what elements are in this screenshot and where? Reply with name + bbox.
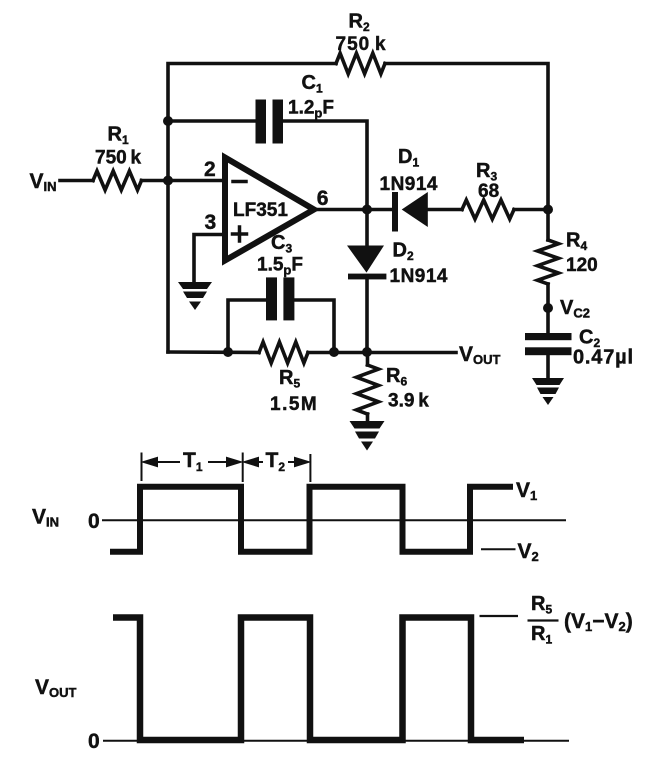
diode D2 — [347, 246, 386, 280]
capacitor C2 — [525, 333, 572, 355]
svg-text:750 k: 750 k — [95, 148, 142, 169]
waveform VOUT square wave — [113, 618, 524, 741]
resistor R4 — [538, 240, 559, 284]
wire output node down to D2 — [365, 210, 369, 246]
wire R6 to ground — [366, 414, 370, 422]
svg-text:1.5M: 1.5M — [270, 394, 318, 415]
op-amp minus sign — [233, 180, 246, 184]
svg-text:VC2: VC2 — [560, 297, 590, 321]
waveform VOUT zero axis — [103, 740, 569, 742]
svg-text:VOUT: VOUT — [459, 343, 501, 367]
T2 left arrow — [245, 458, 263, 466]
node R5 right junction — [329, 347, 339, 357]
svg-text:R1: R1 — [531, 623, 552, 647]
svg-text:R2: R2 — [349, 11, 370, 35]
fraction bar — [528, 619, 559, 621]
svg-text:R3: R3 — [476, 160, 497, 184]
resistor R5 — [259, 342, 308, 363]
svg-text:1.2pF: 1.2pF — [288, 98, 334, 121]
ground below R6 — [350, 421, 385, 451]
svg-text:R4: R4 — [566, 230, 587, 254]
svg-text:(V1−V2): (V1−V2) — [564, 610, 633, 634]
wire C3 right stub — [294, 300, 334, 352]
V2 level dash — [481, 548, 516, 550]
resistor R3 — [462, 200, 514, 219]
wire top left segment to R2 — [168, 64, 336, 122]
svg-text:C3: C3 — [271, 232, 292, 256]
svg-text:R5: R5 — [279, 367, 300, 391]
wire op-amp pin 3 to ground — [194, 235, 224, 284]
T1 left tick — [141, 453, 143, 482]
wire R5 to VOUT label — [308, 351, 456, 355]
T1 right arrow — [208, 458, 240, 466]
waveform VIN zero axis — [102, 519, 566, 521]
wire R4 to C2 — [546, 284, 550, 333]
node R5 left junction — [223, 347, 233, 357]
wire D2 to VOUT node — [365, 279, 369, 352]
node output junction — [362, 205, 372, 215]
node VOUT junction — [362, 347, 372, 357]
svg-text:1N914: 1N914 — [380, 174, 439, 195]
wire left rail — [166, 121, 170, 352]
svg-text:VOUT: VOUT — [35, 676, 77, 700]
node VC2 junction — [543, 303, 553, 313]
svg-text:1N914: 1N914 — [390, 266, 449, 287]
wire R2 to right rail — [385, 64, 548, 241]
svg-text:V1: V1 — [516, 479, 537, 503]
node R3 right rail junction — [543, 205, 553, 215]
T2 right tick — [309, 454, 311, 482]
waveform VIN square wave — [110, 487, 513, 552]
wire C2 to ground — [546, 355, 550, 379]
svg-text:C1: C1 — [302, 72, 323, 96]
T1 T2 middle tick — [242, 453, 244, 483]
node C1 left junction — [163, 116, 173, 126]
ground below C2 — [532, 378, 564, 405]
wire VIN lead — [60, 179, 93, 183]
svg-text:R5: R5 — [531, 593, 552, 617]
svg-text:D1: D1 — [398, 146, 419, 170]
svg-text:750 k: 750 k — [336, 34, 387, 55]
svg-text:D2: D2 — [393, 240, 414, 264]
svg-text:VIN: VIN — [30, 170, 57, 194]
svg-text:3.9 k: 3.9 k — [388, 391, 429, 412]
resistor R2 — [336, 53, 385, 74]
ground below pin 3 — [178, 282, 212, 310]
svg-text:0.47µl: 0.47µl — [573, 347, 634, 369]
wire C1 left — [168, 119, 256, 123]
resistor R1 — [93, 171, 142, 190]
wire D1 to R3 — [428, 208, 462, 212]
svg-text:VIN: VIN — [32, 506, 59, 530]
svg-text:LF351: LF351 — [233, 200, 288, 221]
wire R1 to op-amp pin 2 — [142, 179, 225, 183]
svg-text:T2: T2 — [266, 449, 286, 474]
svg-text:6: 6 — [317, 187, 329, 210]
svg-text:T1: T1 — [183, 449, 203, 474]
VOUT high level dash — [480, 615, 519, 617]
svg-text:R6: R6 — [386, 365, 407, 389]
svg-text:0: 0 — [88, 730, 100, 753]
svg-text:120: 120 — [566, 255, 598, 276]
wire C1 right down to output node — [283, 121, 367, 210]
resistor R6 — [366, 353, 370, 366]
svg-text:1.5pF: 1.5pF — [257, 255, 303, 278]
T2 right arrow — [288, 458, 308, 466]
node inverting input junction — [163, 176, 173, 186]
svg-text:0: 0 — [88, 510, 100, 533]
node junction dots — [163, 116, 553, 357]
svg-text:2: 2 — [204, 158, 216, 181]
op-amp plus sign — [233, 232, 247, 236]
svg-text:V2: V2 — [518, 540, 539, 564]
capacitor C1 — [256, 100, 284, 144]
wire R3 to right rail — [514, 208, 548, 212]
svg-text:R1: R1 — [108, 124, 129, 148]
wire C3 left stub — [228, 300, 266, 352]
wire bottom rail y352 — [168, 350, 259, 354]
svg-text:68: 68 — [478, 181, 499, 202]
op-amp U1 LF351 — [225, 158, 314, 261]
T1 left arrow — [144, 458, 180, 466]
capacitor C3 — [266, 277, 294, 320]
svg-text:3: 3 — [205, 211, 217, 234]
diode D1 — [392, 192, 428, 232]
wire op-amp output to D1 — [314, 208, 392, 212]
